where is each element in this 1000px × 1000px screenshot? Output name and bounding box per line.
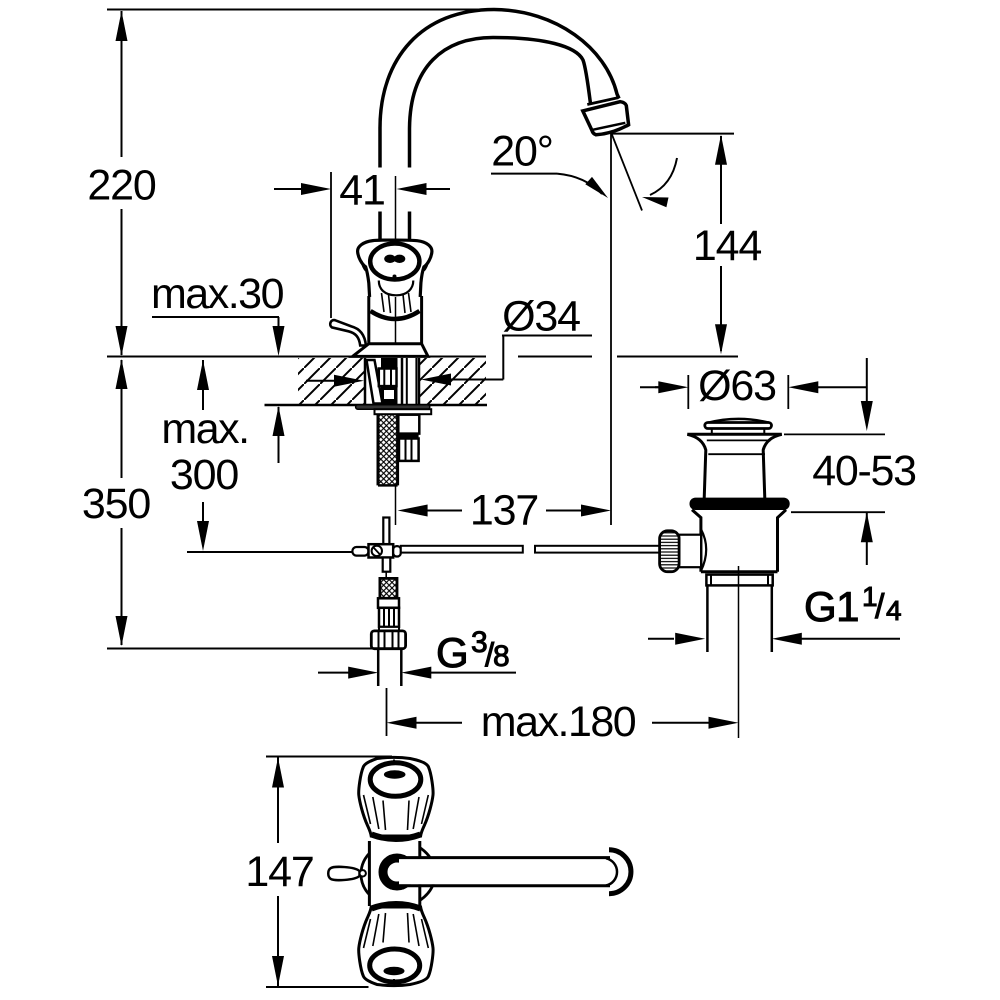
drain O-ring [690,498,790,510]
dimension G3/8 [318,626,516,679]
faucet centerline [395,176,397,356]
drain lower body [692,510,786,572]
extension line rod level [187,551,352,553]
svg-text:220: 220 [87,162,155,210]
counter top surface line [107,356,738,358]
drain upper body [687,434,782,498]
plan lever [328,867,366,880]
dimension 220 [87,11,155,356]
svg-text:41: 41 [339,167,384,215]
dimension G1 1/4 [648,581,902,645]
dimension max.180 [387,688,739,746]
dimension O63 [640,362,867,410]
braided hose lower [380,578,397,598]
pop-up lever [330,320,366,345]
svg-text:8: 8 [493,640,510,673]
extension line spout top [107,9,491,11]
plan body column [369,841,420,906]
svg-text:40-53: 40-53 [812,447,916,495]
drain push cap [705,419,772,434]
supply pipe [378,649,401,686]
plan bottom knob [359,904,433,986]
horizontal pop-up rod [401,546,660,553]
svg-text:350: 350 [82,480,150,528]
braided hose upper [378,415,398,486]
rod coupling block [352,544,400,557]
drain centerline [738,566,740,738]
dimension O34 [306,292,592,386]
hose adapter [378,598,399,631]
escutcheon base [353,344,428,357]
svg-text:4: 4 [886,595,902,626]
drain clamp screw [660,531,702,572]
svg-text:20°: 20° [491,128,552,176]
svg-text:137: 137 [470,487,538,535]
annotation 20 degrees [491,128,677,211]
extension line 350 bottom [107,648,403,650]
svg-text:Ø63: Ø63 [698,362,776,410]
plan top knob [359,757,433,839]
dimension 40-53 [784,358,916,565]
dimension 137 [398,487,611,535]
dimension 144 [611,134,761,355]
hose centerline [395,485,397,525]
svg-text:/: / [875,588,885,626]
svg-text:Ø34: Ø34 [502,292,580,340]
handle knob front view [358,240,432,344]
dimension max.300 [161,360,248,551]
angle fitting [398,415,419,461]
dimension 350 [82,359,150,646]
aerator nozzle [583,98,629,135]
rod lower stub [383,558,391,578]
plan spout [383,850,631,894]
gooseneck spout [380,10,619,241]
mounting shank [365,358,419,404]
svg-text:G: G [436,629,468,676]
plan escutcheon [361,841,435,906]
svg-text:G1: G1 [804,583,859,630]
dimension 147 [245,758,313,987]
plan extension lines [266,757,392,988]
drain tailpiece [706,575,772,652]
washer under deck [356,405,432,414]
counter hatching [265,358,488,405]
dimension 41 [274,167,450,319]
extension line spout tip [610,134,612,525]
svg-text:max.180: max.180 [481,698,636,746]
pop-up rod vertical [383,518,389,545]
dimension max.30 [151,270,285,463]
svg-text:147: 147 [245,848,313,896]
svg-text:300: 300 [170,451,238,499]
union nut G3/8 [371,631,405,649]
svg-text:max.: max. [161,405,248,453]
svg-text:max.30: max.30 [151,270,284,318]
svg-text:144: 144 [693,222,761,270]
